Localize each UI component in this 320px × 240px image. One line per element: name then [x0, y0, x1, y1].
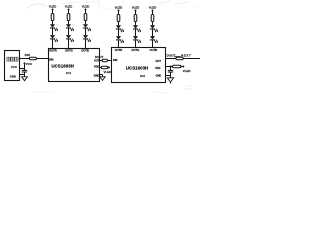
resistor R-vled2 — [173, 65, 181, 68]
underline between DOUT and NEXT — [174, 55, 180, 57]
wire LED1 to LED2 (IC2 ch1) — [118, 29, 120, 36]
LED D1 (IC1 ch2) — [66, 24, 74, 31]
node VLED terminal dot (IC2) — [182, 66, 184, 68]
wire IC1 VDD to resistor — [100, 67, 102, 69]
LED D2 (IC2 ch2) — [133, 36, 141, 43]
wire resistor to LED1 (IC1 ch2) — [68, 21, 70, 25]
connector/controller box (signal input) — [5, 51, 20, 81]
op IC U1 box UCS1603H IC1 — [49, 49, 100, 82]
wire LED1 to LED2 (IC1 ch2) — [68, 28, 70, 35]
wire VLED dot to resistor (IC2 ch1) — [118, 11, 120, 15]
resistor R-vled1 — [101, 66, 107, 69]
svg-text:DOUT: DOUT — [95, 55, 104, 59]
wire capacitor to GND rail — [24, 72, 26, 75]
wire resistor to LED1 (IC1 ch1) — [52, 21, 54, 25]
svg-text:VLED: VLED — [115, 6, 122, 10]
svg-text:OUTR: OUTR — [115, 48, 123, 52]
wire LED1 to LED2 (IC2 ch3) — [152, 29, 154, 36]
wire LED1 to LED2 (IC1 ch3) — [85, 28, 87, 35]
wire LED2 to IC pin (IC2 ch1) — [118, 40, 120, 48]
svg-text:DIN: DIN — [49, 58, 54, 62]
LED D2 (IC2 ch3) — [150, 36, 158, 43]
wire VLED dot to resistor (IC1 ch3) — [85, 10, 87, 14]
capacitor C2 (IC2 VDD decoupling) — [168, 70, 173, 72]
svg-text:GND: GND — [156, 75, 162, 78]
svg-text:VCC: VCC — [11, 65, 18, 69]
resistor current-limit (IC1 ch3) — [84, 14, 87, 21]
wire VLED dot to resistor (IC1 ch2) — [68, 10, 70, 14]
LED D1 (IC1 ch1) — [50, 24, 58, 31]
svg-text:VLED: VLED — [82, 5, 89, 9]
wire controller GND stub — [20, 74, 25, 76]
svg-text:IC2: IC2 — [140, 74, 145, 78]
ground (IC1) — [100, 75, 105, 81]
LED D2 (IC1 ch1) — [50, 35, 58, 42]
svg-text:VDD: VDD — [94, 66, 99, 69]
controller box label text — [7, 57, 18, 61]
wire LED1 to LED2 (IC1 ch1) — [52, 28, 54, 35]
wire resistor to LED1 (IC2 ch1) — [118, 22, 120, 26]
wire resistor to VLED node (IC2) — [181, 66, 183, 68]
svg-text:GND: GND — [94, 74, 100, 77]
ground (IC2) — [167, 76, 173, 84]
wire capacitor to GND wire — [170, 72, 172, 76]
svg-text:OUT: OUT — [156, 59, 162, 63]
resistor R-din (series input) — [29, 57, 36, 60]
resistor current-limit (IC2 ch3) — [151, 15, 154, 22]
node VLED dot (IC1 ch2) — [68, 9, 70, 11]
resistor current-limit (IC1 ch2) — [67, 14, 70, 21]
ground (input) — [22, 75, 28, 81]
svg-text:DIN: DIN — [25, 53, 30, 57]
wire VCC vertical — [24, 63, 26, 70]
wire LED2 to IC pin (IC1 ch2) — [68, 39, 70, 49]
svg-text:VLED: VLED — [132, 6, 139, 10]
LED D1 (IC1 ch3) — [83, 24, 91, 31]
svg-text:OUTB: OUTB — [150, 48, 158, 52]
wire resistor to LED1 (IC2 ch2) — [135, 22, 137, 26]
LED D1 (IC2 ch3) — [150, 25, 158, 32]
node junction dot (IC2 VDD) — [170, 66, 172, 68]
wire resistor to LED1 (IC2 ch3) — [152, 22, 154, 26]
wire LED2 to IC pin (IC2 ch3) — [152, 40, 154, 48]
wire resistor to edge NEXT — [183, 58, 200, 60]
wire resistor to VLED node (IC1) — [108, 67, 109, 69]
node VLED dot (IC2 ch1) — [118, 10, 120, 12]
wire resistor to IC1 DIN pin — [37, 58, 49, 60]
svg-text:DOUT: DOUT — [167, 54, 176, 58]
wire resistor to IC2 DIN pin — [108, 60, 112, 62]
wire IC1 GND pin — [100, 74, 103, 76]
node VLED terminal dot (IC1) — [108, 67, 110, 69]
svg-text:GND: GND — [10, 75, 16, 79]
LED D2 (IC1 ch2) — [66, 35, 74, 42]
wire LED2 to IC pin (IC1 ch3) — [85, 39, 87, 49]
svg-text:OUTG: OUTG — [65, 49, 73, 53]
wire VLED dot to resistor (IC2 ch2) — [135, 11, 137, 15]
svg-text:VLED: VLED — [104, 70, 112, 74]
LED D2 (IC1 ch3) — [83, 35, 91, 42]
wire VLED dot to resistor (IC2 ch3) — [152, 11, 154, 15]
svg-text:UCS1603H: UCS1603H — [51, 64, 73, 69]
node VLED dot (IC1 ch1) — [52, 9, 54, 11]
wire IC1 OUT to resistor — [100, 60, 103, 62]
node VLED dot (IC1 ch3) — [85, 9, 87, 11]
wire controller VCC stub — [20, 68, 25, 70]
svg-text:OUTR: OUTR — [49, 49, 57, 53]
resistor current-limit (IC2 ch2) — [134, 15, 137, 22]
svg-text:OUTG: OUTG — [131, 48, 139, 52]
wire LED2 to IC pin (IC1 ch1) — [52, 39, 54, 49]
resistor current-limit (IC2 ch1) — [117, 15, 120, 22]
svg-text:IC1: IC1 — [66, 71, 71, 75]
wire IC2 VDD to junction — [166, 66, 173, 68]
wire LED2 to IC pin (IC2 ch2) — [135, 40, 137, 48]
svg-text:DIN: DIN — [113, 58, 118, 62]
svg-text:VLED: VLED — [149, 6, 156, 10]
resistor R-dout1 (series) — [102, 59, 107, 62]
svg-text:VDD: VDD — [155, 67, 160, 70]
wire IC2 OUT to resistor — [166, 58, 176, 60]
svg-text:VCC: VCC — [26, 62, 33, 66]
wire LED1 to LED2 (IC2 ch2) — [135, 29, 137, 36]
LED D1 (IC2 ch2) — [133, 25, 141, 32]
node VLED dot (IC2 ch3) — [152, 10, 154, 12]
wire resistor to LED1 (IC1 ch3) — [85, 21, 87, 25]
node VCC dot — [24, 62, 26, 64]
node VLED dot (IC2 ch2) — [135, 10, 137, 12]
LED D1 (IC2 ch1) — [116, 25, 124, 32]
resistor R-dout2 (series) — [176, 57, 183, 60]
op IC U2 box UCS1603H IC2 — [112, 48, 166, 83]
svg-text:OUTB: OUTB — [81, 49, 89, 53]
svg-text:UCS1603H: UCS1603H — [126, 65, 148, 70]
svg-text:VLED: VLED — [183, 69, 192, 73]
svg-text:VLED: VLED — [49, 5, 56, 9]
wire IC2 GND pin — [166, 75, 171, 77]
capacitor C1 (VCC decoupling) — [22, 70, 27, 72]
wire VLED dot to resistor (IC1 ch1) — [52, 10, 54, 14]
wire controller DIN to resistor — [20, 58, 30, 60]
svg-text:VLED: VLED — [65, 5, 72, 9]
resistor current-limit (IC1 ch1) — [51, 14, 54, 21]
LED D2 (IC2 ch1) — [116, 36, 124, 43]
wire junction down to capacitor — [170, 67, 172, 71]
